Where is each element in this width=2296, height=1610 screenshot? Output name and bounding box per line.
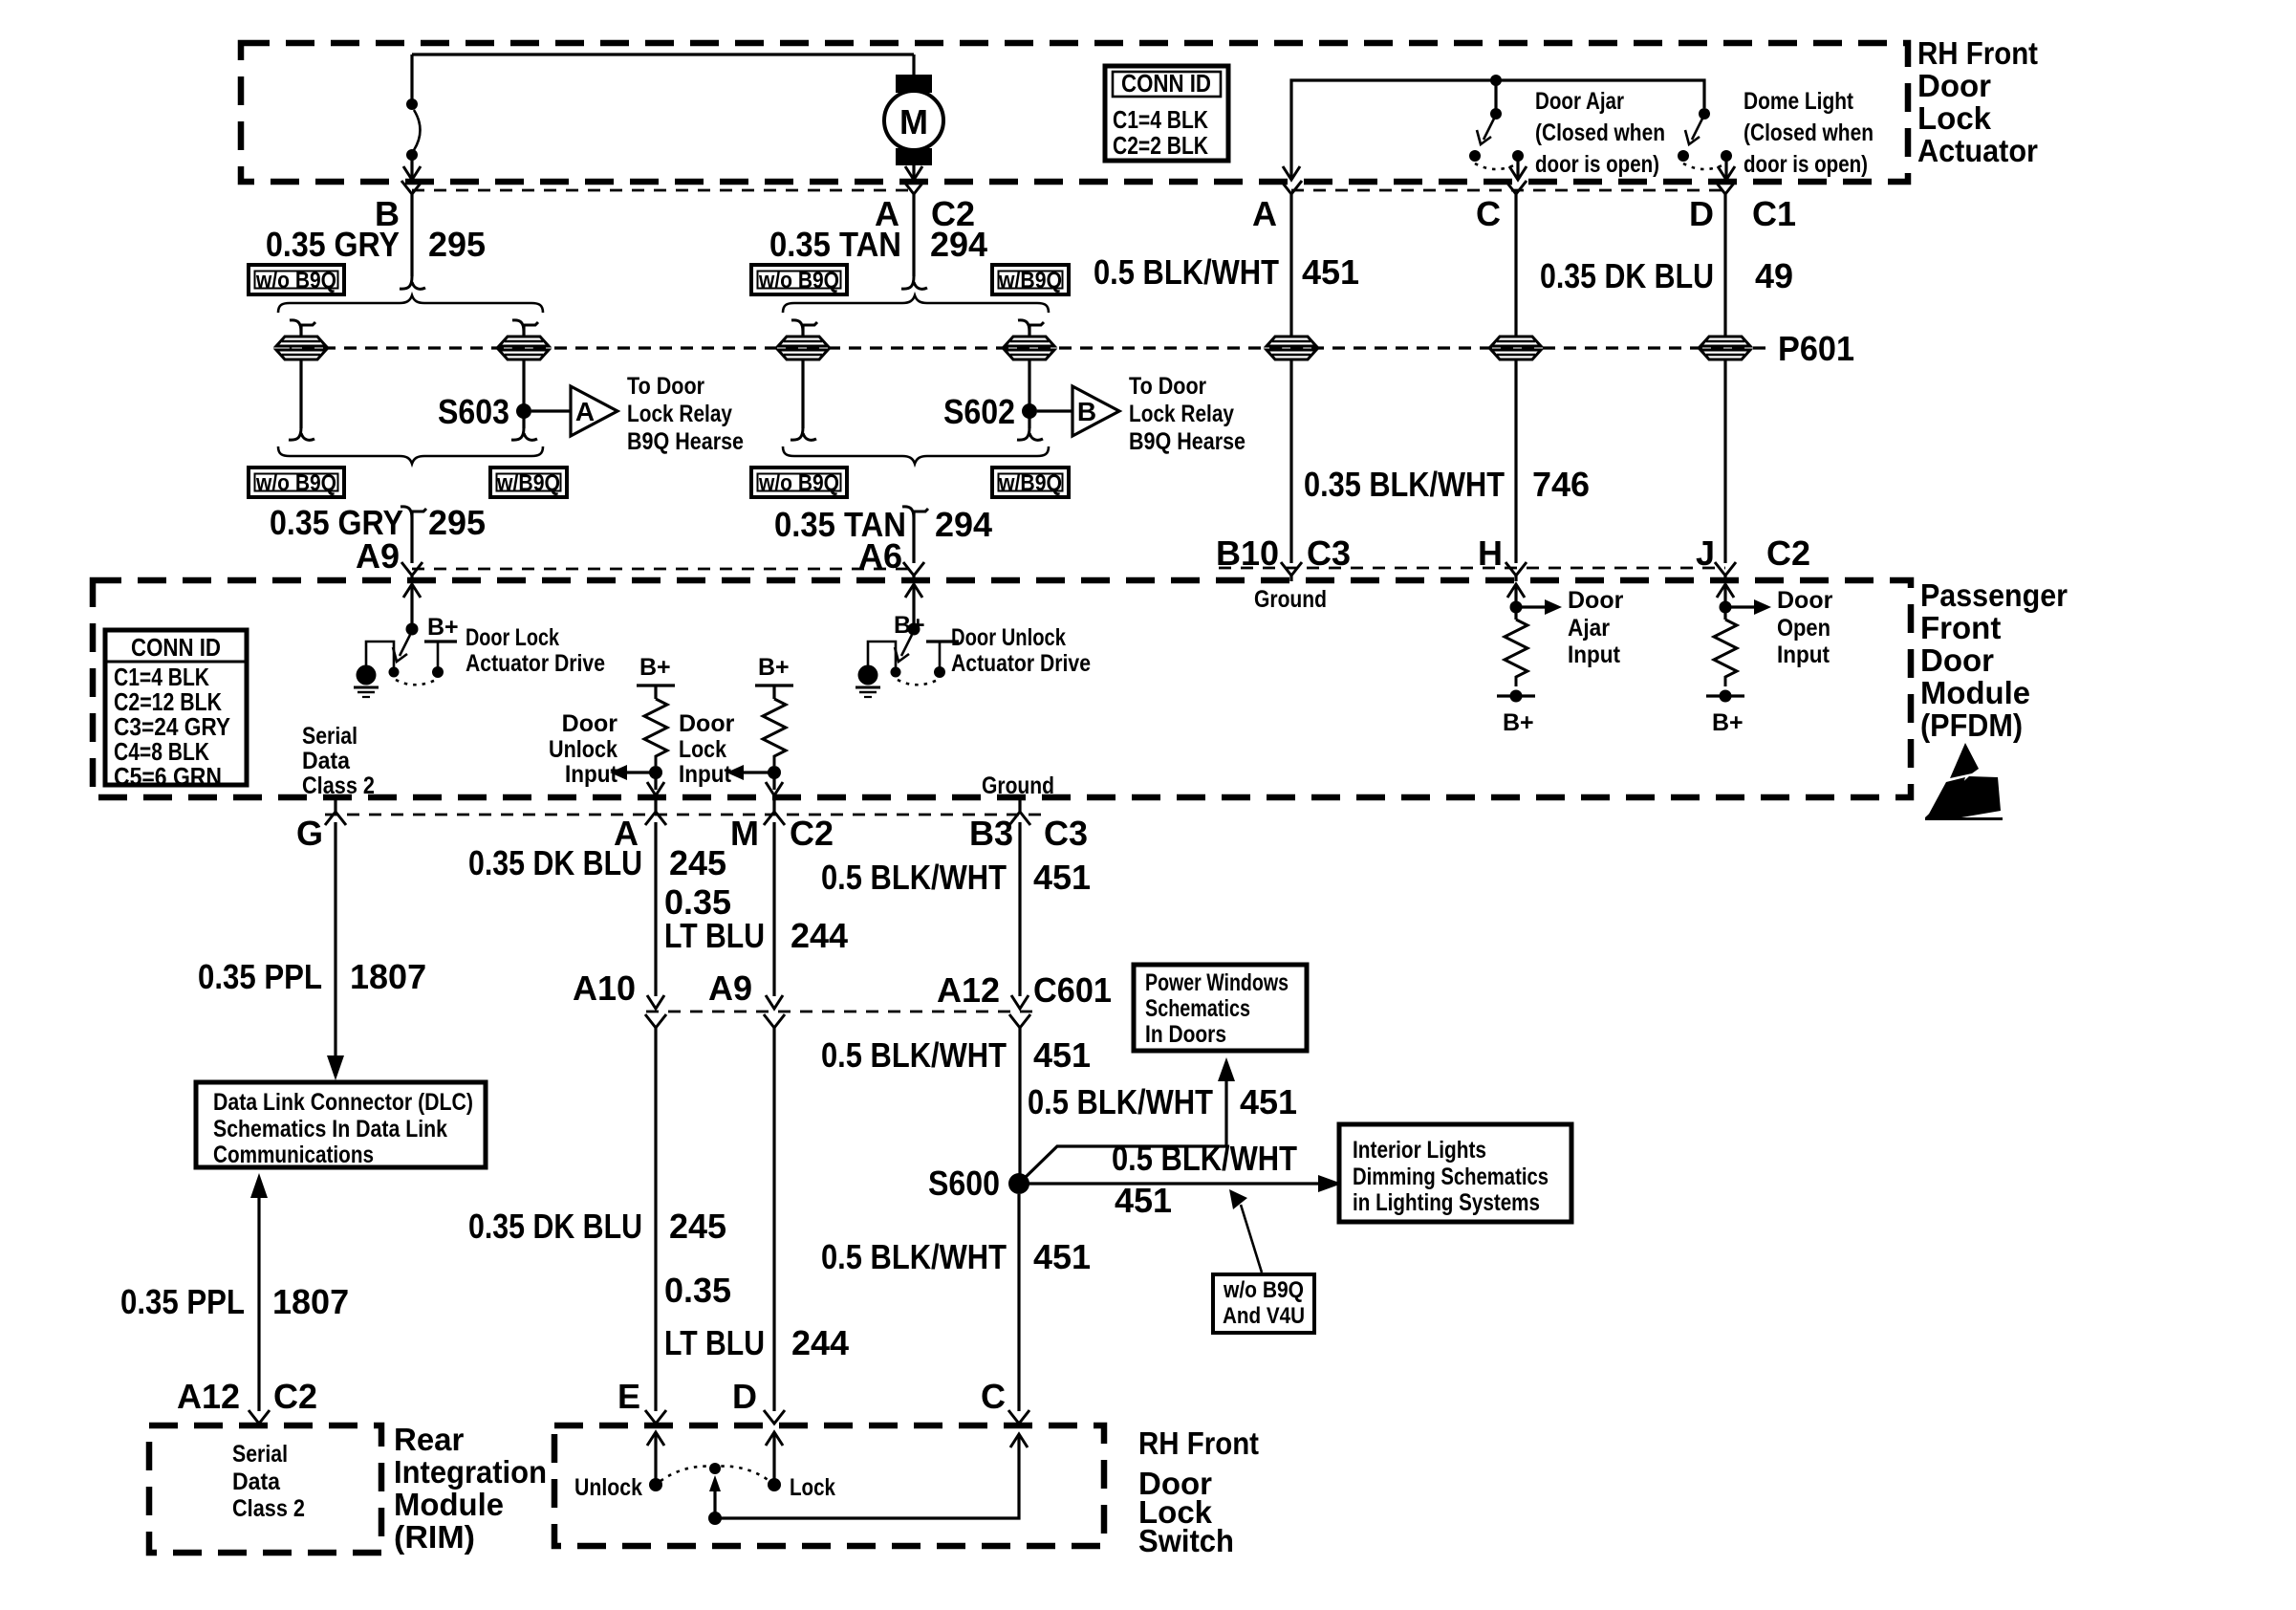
pin D connector <box>764 1410 785 1424</box>
svg-text:C2: C2 <box>1766 533 1810 573</box>
label 0.35 DK BLU 49 <box>1540 256 1793 295</box>
svg-text:Actuator Drive: Actuator Drive <box>466 650 605 677</box>
svg-text:Ajar: Ajar <box>1568 615 1610 642</box>
off-page flag B (to door lock relay) <box>1072 386 1119 436</box>
wire 244 LT BLU (M to A9) <box>772 822 775 996</box>
label 0.5 BLK/WHT 451 (to lock switch) <box>821 1237 1091 1276</box>
svg-text:And V4U: And V4U <box>1223 1303 1305 1329</box>
resistor R4 (door open input) <box>1706 584 1771 703</box>
svg-text:door is open): door is open) <box>1744 151 1868 178</box>
TAN w/o-B9Q harness stub with inline connector <box>778 320 828 441</box>
svg-text:B+: B+ <box>758 654 790 681</box>
resistor R3 (door ajar input) <box>1497 584 1562 703</box>
svg-text:C5=6 GRN: C5=6 GRN <box>114 762 222 791</box>
RH Front Door Lock Switch box <box>554 1425 1104 1546</box>
C601 crossing pin A9 <box>764 995 785 1411</box>
label 0.5 BLK/WHT 451 (B3 segment) <box>821 858 1091 897</box>
wire 1807 PPL (G to DLC) <box>327 822 344 1080</box>
svg-text:Lock Relay: Lock Relay <box>1129 401 1234 427</box>
svg-text:Actuator: Actuator <box>1917 133 2038 168</box>
svg-text:G: G <box>296 814 323 853</box>
wire 295 GRY lower segment to PFDM pin A9 <box>401 507 426 581</box>
arrow into pin D <box>1718 166 1735 180</box>
RH Front Door Lock Actuator module box <box>241 43 1908 182</box>
wire 451 BLK/WHT (B3 to A12) <box>1018 822 1021 996</box>
lock switch: lock contact branch <box>766 1432 783 1491</box>
connector line below PFDM <box>325 814 1042 816</box>
svg-text:In Doors: In Doors <box>1145 1021 1226 1048</box>
ground G1 (PFDM internal) <box>354 642 394 697</box>
CONN ID table (PFDM) <box>105 630 247 791</box>
svg-text:245: 245 <box>669 843 726 882</box>
lock switch: unlock contact branch <box>647 1432 664 1491</box>
svg-text:Schematics In Data Link: Schematics In Data Link <box>213 1116 447 1142</box>
svg-text:S603: S603 <box>438 392 509 431</box>
wire S600 branch to power windows <box>1023 1057 1235 1180</box>
svg-text:CONN ID: CONN ID <box>1121 69 1211 98</box>
svg-text:0.35 DK BLU: 0.35 DK BLU <box>468 843 642 882</box>
connector C2 line (PFDM top left) <box>412 568 914 571</box>
svg-text:C2=2 BLK: C2=2 BLK <box>1113 131 1208 160</box>
svg-text:0.35 PPL: 0.35 PPL <box>198 957 322 996</box>
svg-text:0.5 BLK/WHT: 0.5 BLK/WHT <box>1028 1082 1213 1121</box>
module label: RH Front Door Lock Switch <box>1138 1425 1259 1558</box>
brace (GRY options upper) <box>278 295 543 313</box>
svg-text:B3: B3 <box>969 814 1013 853</box>
svg-text:w/o B9Q: w/o B9Q <box>1223 1277 1304 1303</box>
arrow into pin A (451) <box>1283 166 1300 180</box>
option tag w/o B9Q (GRY upper) <box>249 265 344 294</box>
svg-text:w/B9Q: w/B9Q <box>496 470 560 496</box>
svg-text:(PFDM): (PFDM) <box>1920 707 2023 743</box>
svg-text:C: C <box>1476 194 1501 233</box>
svg-text:Dome Light: Dome Light <box>1744 88 1854 115</box>
svg-text:A10: A10 <box>573 968 636 1008</box>
svg-text:To Door: To Door <box>1129 373 1206 400</box>
wire 49 DK BLU (pin D to J) <box>1700 207 1750 581</box>
dome light switch <box>1678 108 1732 178</box>
svg-text:294: 294 <box>930 225 987 264</box>
svg-text:295: 295 <box>428 225 486 264</box>
arrow into pin C <box>1509 166 1527 180</box>
svg-text:A: A <box>575 397 595 426</box>
svg-text:Schematics: Schematics <box>1145 995 1250 1022</box>
wire 294 TAN upper segment <box>901 207 927 289</box>
GRY w/B9Q harness stub with inline connector <box>499 320 549 441</box>
svg-text:D: D <box>1689 194 1714 233</box>
wire: actuator internal feed (switch to motor) <box>412 53 914 55</box>
label 0.35 GRY 295 (upper) <box>266 225 486 264</box>
option tag w/B9Q (TAN lower) <box>992 468 1069 497</box>
svg-text:door is open): door is open) <box>1535 151 1659 178</box>
label 0.35 LT BLU 244 (lower) <box>664 1271 849 1362</box>
door unlock actuator drive switch (PFDM) <box>891 584 960 685</box>
label: Door Ajar annotation <box>1535 88 1665 178</box>
svg-text:0.5 BLK/WHT: 0.5 BLK/WHT <box>821 1035 1007 1075</box>
svg-text:Module: Module <box>1920 675 2030 710</box>
svg-text:C1: C1 <box>1752 194 1796 233</box>
svg-text:Door: Door <box>1568 587 1624 614</box>
svg-text:P601: P601 <box>1778 329 1854 368</box>
Data Link Connector reference box <box>196 1082 486 1168</box>
wire S600 to interior lights (451) <box>1019 1175 1342 1192</box>
pin A connector (motor) <box>903 181 924 207</box>
wire 451 below S600 to pin C <box>1017 1194 1020 1411</box>
svg-text:0.5 BLK/WHT: 0.5 BLK/WHT <box>1112 1139 1297 1178</box>
option tag w/o B9Q And V4U <box>1213 1274 1314 1333</box>
svg-text:244: 244 <box>791 916 848 955</box>
pin D connector <box>1715 181 1736 207</box>
svg-text:w/o B9Q: w/o B9Q <box>758 268 839 294</box>
svg-text:0.35 BLK/WHT: 0.35 BLK/WHT <box>1304 465 1505 504</box>
label 0.35 PPL 1807 (upper) <box>198 957 426 996</box>
svg-text:H: H <box>1478 533 1503 573</box>
wire 294 TAN lower segment to PFDM pin A6 <box>902 507 928 581</box>
arrow into pin A (motor) <box>905 166 922 180</box>
svg-text:1807: 1807 <box>350 957 426 996</box>
label 0.5 BLK/WHT 451 (power windows branch) <box>1028 1082 1297 1121</box>
wire: door-ajar / dome feed <box>1291 80 1704 178</box>
wire: switch to pin B <box>410 155 413 178</box>
svg-text:LT BLU: LT BLU <box>664 916 765 955</box>
svg-text:Front: Front <box>1920 610 2001 645</box>
pin C connector <box>1505 181 1527 207</box>
label: Door Lock Input <box>679 710 735 788</box>
svg-text:0.5 BLK/WHT: 0.5 BLK/WHT <box>1094 252 1279 292</box>
svg-text:C3: C3 <box>1307 533 1351 573</box>
svg-text:Serial: Serial <box>302 723 357 750</box>
label 0.5 BLK/WHT 451 (below C601) <box>821 1035 1091 1075</box>
option tag w/o B9Q (TAN upper) <box>751 265 847 294</box>
pin C connector <box>1008 1410 1029 1424</box>
wire 451 BLK/WHT (pin A to B10) <box>1267 207 1316 581</box>
wire: switch stub <box>410 54 413 99</box>
C601 crossing pin A12 <box>1009 995 1030 1175</box>
svg-text:Input: Input <box>1568 642 1621 668</box>
ESD sensitivity symbol <box>1925 743 2003 820</box>
lock switch: wiper travel arc <box>661 1463 769 1481</box>
svg-text:A12: A12 <box>177 1377 240 1416</box>
svg-text:0.35 DK BLU: 0.35 DK BLU <box>1540 256 1714 295</box>
svg-text:J: J <box>1696 533 1715 573</box>
svg-text:451: 451 <box>1033 858 1091 897</box>
svg-text:w/o B9Q: w/o B9Q <box>255 470 336 496</box>
svg-text:B9Q Hearse: B9Q Hearse <box>627 428 744 455</box>
svg-text:244: 244 <box>791 1323 849 1362</box>
svg-text:A12: A12 <box>937 970 1000 1010</box>
label: Serial Data Class 2 (RIM) <box>232 1441 305 1522</box>
svg-text:B+: B+ <box>894 612 925 639</box>
svg-text:RH Front: RH Front <box>1138 1425 1259 1461</box>
svg-text:LT BLU: LT BLU <box>664 1323 765 1362</box>
pin M connector <box>764 800 785 825</box>
resistor R2 (door lock input pull-up) <box>726 654 793 795</box>
svg-text:B+: B+ <box>427 614 459 641</box>
wire 746 BLK/WHT (pin C to H) <box>1491 207 1541 581</box>
pin B3 connector <box>1009 800 1030 825</box>
svg-text:(RIM): (RIM) <box>394 1519 475 1555</box>
svg-text:S600: S600 <box>928 1164 1000 1203</box>
svg-text:M: M <box>899 102 928 141</box>
svg-text:Ground: Ground <box>982 772 1054 799</box>
svg-text:Unlock: Unlock <box>549 736 617 763</box>
svg-text:B+: B+ <box>639 654 671 681</box>
svg-text:Door Unlock: Door Unlock <box>951 624 1066 651</box>
svg-text:Input: Input <box>565 761 618 788</box>
svg-text:Door Ajar: Door Ajar <box>1535 88 1624 115</box>
svg-text:w/B9Q: w/B9Q <box>998 268 1062 294</box>
svg-text:Serial: Serial <box>232 1441 288 1468</box>
svg-text:Open: Open <box>1777 615 1830 642</box>
svg-text:Door: Door <box>1777 587 1833 614</box>
svg-text:M: M <box>730 814 759 853</box>
svg-text:Integration: Integration <box>394 1454 547 1490</box>
svg-text:(Closed when: (Closed when <box>1535 120 1665 146</box>
Rear Integration Module box <box>149 1425 381 1553</box>
svg-text:C2: C2 <box>790 814 834 853</box>
resistor R1 (door unlock input pull-up) <box>610 654 675 795</box>
svg-text:0.5 BLK/WHT: 0.5 BLK/WHT <box>821 1237 1007 1276</box>
svg-text:Data Link Connector (DLC): Data Link Connector (DLC) <box>213 1089 473 1116</box>
label: Door Lock Actuator Drive <box>466 624 605 677</box>
connector C601 line <box>646 1011 1042 1013</box>
svg-text:Data: Data <box>302 748 351 774</box>
svg-text:746: 746 <box>1532 465 1590 504</box>
svg-text:Dimming Schematics: Dimming Schematics <box>1353 1164 1549 1190</box>
svg-text:C: C <box>981 1377 1006 1416</box>
label 0.35 GRY 295 (lower) <box>270 503 486 542</box>
label 0.35 BLK/WHT 746 <box>1304 465 1590 504</box>
wire 245 DK BLU (A to A10) <box>654 822 657 996</box>
label 0.5 BLK/WHT 451 (interior lights) <box>1112 1139 1297 1220</box>
switch SW1 (lock actuator internal switch) <box>406 98 421 161</box>
pin E connector <box>645 1410 666 1424</box>
svg-text:w/B9Q: w/B9Q <box>998 470 1062 496</box>
svg-text:Door Lock: Door Lock <box>466 624 559 651</box>
Interior Lights reference box <box>1339 1124 1571 1222</box>
svg-text:0.35 DK BLU: 0.35 DK BLU <box>468 1207 642 1246</box>
module label: RH Front Door Lock Actuator <box>1917 35 2038 168</box>
svg-text:A9: A9 <box>708 968 752 1008</box>
svg-text:294: 294 <box>935 505 992 544</box>
svg-text:49: 49 <box>1755 256 1793 295</box>
C601 crossing pin A10 <box>645 995 666 1411</box>
brace (GRY options lower) <box>278 446 543 464</box>
label 0.35 DK BLU 245 (upper) <box>468 843 726 882</box>
label 0.35 TAN 294 (lower) <box>774 505 992 544</box>
splice S603 <box>438 392 531 431</box>
svg-text:0.35 GRY: 0.35 GRY <box>266 225 400 264</box>
GRY w/o-B9Q harness stub with inline connector <box>276 320 326 441</box>
svg-text:w/o B9Q: w/o B9Q <box>758 470 839 496</box>
svg-text:1807: 1807 <box>272 1282 349 1321</box>
svg-text:Class 2: Class 2 <box>232 1495 305 1522</box>
lock switch: common pole <box>708 1434 1028 1525</box>
svg-text:Interior Lights: Interior Lights <box>1353 1137 1486 1164</box>
svg-text:C3: C3 <box>1044 814 1088 853</box>
svg-text:Lock: Lock <box>790 1474 835 1501</box>
svg-text:Data: Data <box>232 1469 281 1495</box>
svg-text:C601: C601 <box>1033 970 1112 1010</box>
svg-text:A: A <box>1252 194 1277 233</box>
splice S602 <box>943 392 1037 431</box>
svg-text:B+: B+ <box>1712 709 1744 736</box>
motor M (door lock motor) <box>884 54 943 178</box>
svg-text:Unlock: Unlock <box>574 1474 642 1501</box>
splice S600 <box>928 1164 1029 1203</box>
svg-text:RH Front: RH Front <box>1917 35 2038 71</box>
svg-text:D: D <box>732 1377 757 1416</box>
pin B connector <box>401 181 422 207</box>
connector P601 dashed line <box>302 346 1768 349</box>
option tag w/o B9Q (GRY lower) <box>249 468 344 497</box>
svg-text:Door: Door <box>562 710 618 737</box>
option tag w/B9Q (TAN upper) <box>992 265 1069 294</box>
svg-text:451: 451 <box>1240 1082 1297 1121</box>
module label: Rear Integration Module (RIM) <box>394 1422 547 1555</box>
svg-text:0.5 BLK/WHT: 0.5 BLK/WHT <box>821 858 1007 897</box>
brace (TAN options lower) <box>783 446 1049 464</box>
label: Door Unlock Actuator Drive <box>951 624 1091 677</box>
svg-text:Lock Relay: Lock Relay <box>627 401 732 427</box>
label 0.35 PPL 1807 (lower) <box>120 1282 349 1321</box>
brace (TAN options upper) <box>783 295 1049 313</box>
svg-text:Switch: Switch <box>1138 1523 1234 1558</box>
label: Dome Light annotation <box>1744 88 1874 178</box>
svg-text:Input: Input <box>679 761 732 788</box>
label 0.35 LT BLU 244 (upper) <box>664 882 848 955</box>
label: Serial Data Class 2 <box>302 723 375 799</box>
connector C2 line (actuator) <box>412 189 914 192</box>
svg-text:Lock: Lock <box>679 736 726 763</box>
label: To Door Lock Relay B9Q Hearse (left) <box>627 373 744 455</box>
svg-text:0.35: 0.35 <box>664 1271 731 1310</box>
svg-text:E: E <box>617 1377 640 1416</box>
label: Door Unlock Input <box>549 710 618 788</box>
svg-text:B9Q Hearse: B9Q Hearse <box>1129 428 1245 455</box>
Power Windows reference box <box>1134 965 1307 1051</box>
svg-text:C2: C2 <box>273 1377 317 1416</box>
svg-text:451: 451 <box>1033 1035 1091 1075</box>
svg-text:CONN ID: CONN ID <box>131 633 221 662</box>
svg-text:B10: B10 <box>1216 533 1279 573</box>
svg-text:Passenger: Passenger <box>1920 577 2068 613</box>
label 0.5 BLK/WHT 451 <box>1094 252 1359 292</box>
svg-text:0.35 PPL: 0.35 PPL <box>120 1282 245 1321</box>
pin A12 connector (RIM) <box>249 1410 270 1424</box>
CONN ID table (actuator) <box>1105 66 1228 161</box>
svg-text:Communications: Communications <box>213 1142 374 1168</box>
svg-text:245: 245 <box>669 1207 726 1246</box>
svg-text:Door: Door <box>679 710 735 737</box>
label 0.35 TAN 294 (upper) <box>769 225 987 264</box>
svg-text:A9: A9 <box>356 536 400 576</box>
wire S602 to flag B <box>1037 409 1072 412</box>
svg-text:0.35 TAN: 0.35 TAN <box>769 225 901 264</box>
svg-text:451: 451 <box>1115 1181 1172 1220</box>
svg-text:Input: Input <box>1777 642 1830 668</box>
svg-text:451: 451 <box>1302 252 1359 292</box>
svg-text:Ground: Ground <box>1254 586 1327 613</box>
connector C3 line (PFDM top) <box>1219 567 1725 570</box>
svg-text:S602: S602 <box>943 392 1015 431</box>
connector C1 line (actuator) <box>1291 189 1725 192</box>
module label: Passenger Front Door Module (PFDM) <box>1920 577 2068 743</box>
door ajar switch <box>1469 75 1524 178</box>
svg-text:C1=4 BLK: C1=4 BLK <box>1113 105 1208 134</box>
pin A connector (PFDM bottom) <box>645 800 666 825</box>
label: To Door Lock Relay B9Q Hearse (right) <box>1129 373 1245 455</box>
label: Door Ajar Input <box>1568 587 1624 668</box>
label: Door Open Input <box>1777 587 1833 668</box>
svg-text:Door: Door <box>1920 642 1994 678</box>
svg-text:Rear: Rear <box>394 1422 465 1457</box>
svg-text:295: 295 <box>428 503 486 542</box>
option tag w/o B9Q (TAN lower) <box>751 468 847 497</box>
svg-text:w/o B9Q: w/o B9Q <box>255 268 336 294</box>
svg-text:Lock: Lock <box>1917 100 1992 136</box>
svg-text:B: B <box>1077 397 1096 426</box>
svg-text:To Door: To Door <box>627 373 704 400</box>
label 0.35 DK BLU 245 (lower) <box>468 1207 726 1246</box>
svg-text:in Lighting Systems: in Lighting Systems <box>1353 1189 1540 1216</box>
ground G2 (PFDM internal) <box>856 642 896 697</box>
off-page flag A (to door lock relay) <box>571 386 617 436</box>
TAN w/B9Q harness stub with inline connector <box>1005 320 1054 441</box>
door lock actuator drive switch (PFDM) <box>389 584 458 685</box>
svg-text:Power Windows: Power Windows <box>1145 969 1289 996</box>
svg-text:Class 2: Class 2 <box>302 772 375 799</box>
wire 1807 PPL (RIM to DLC) <box>250 1173 268 1411</box>
svg-text:B+: B+ <box>1503 709 1534 736</box>
svg-text:(Closed when: (Closed when <box>1744 120 1874 146</box>
pin G connector <box>325 800 346 825</box>
svg-text:Actuator Drive: Actuator Drive <box>951 650 1091 677</box>
svg-text:451: 451 <box>1033 1237 1091 1276</box>
svg-text:Door: Door <box>1917 68 1991 103</box>
wire S603 to flag A <box>531 409 571 412</box>
Passenger Front Door Module box <box>93 580 1911 797</box>
option tag w/B9Q (GRY lower) <box>490 468 567 497</box>
pin A connector (451) <box>1281 181 1302 207</box>
svg-text:Module: Module <box>394 1487 504 1522</box>
arrow from w/o B9Q And V4U tag to wire 451 <box>1229 1189 1262 1273</box>
arrow into pin B <box>403 166 421 180</box>
wire 295 GRY upper segment <box>400 207 425 289</box>
